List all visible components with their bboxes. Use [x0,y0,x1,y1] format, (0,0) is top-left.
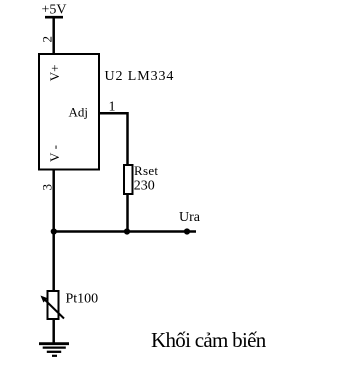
svg-text:Pt100: Pt100 [66,292,99,307]
svg-text:3: 3 [39,184,54,191]
ground bar 3 [47,351,61,353]
wire pin 3 down to Pt100 [52,170,55,292]
ground bar 4 [52,355,57,357]
svg-text:Khối cảm biến: Khối cảm biến [151,328,267,352]
resistor Rset body [124,165,133,194]
thermistor Pt100 arrowhead [41,296,48,303]
wire Rset to bus [126,194,129,232]
svg-text:2: 2 [40,36,55,43]
svg-text:V+: V+ [47,65,62,82]
wire pin 1 to Rset [98,113,128,165]
node Ura terminal dot [184,228,190,234]
thermistor Pt100 body [48,291,59,319]
junction at Rset wire [124,228,130,234]
svg-text:Ura: Ura [179,210,201,225]
wire output bus [53,230,197,233]
junction at pin3 wire [51,228,57,234]
svg-text:230: 230 [134,179,155,194]
ground bar 2 [43,346,66,348]
op-amp U2 LM334 body [39,54,99,170]
svg-text:+5V: +5V [42,3,67,18]
svg-text:V -: V - [47,145,62,162]
ground bar 1 [39,342,69,345]
power +5V bar [45,16,63,19]
svg-text:Rset: Rset [134,163,158,178]
thermistor Pt100 diagonal stroke [43,298,65,319]
wire pin 2 (power to V+ pin) [52,17,55,54]
svg-text:U2 LM334: U2 LM334 [105,69,175,84]
svg-text:Adj: Adj [69,104,89,119]
wire Pt100 to ground [52,319,55,344]
